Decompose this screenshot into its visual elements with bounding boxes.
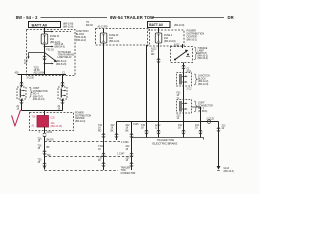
svg-text:(8W-10-16): (8W-10-16) bbox=[164, 41, 176, 43]
svg-text:8W-54 TRAILER TOW: 8W-54 TRAILER TOW bbox=[110, 15, 154, 20]
svg-text:C150: C150 bbox=[47, 132, 53, 134]
svg-text:(8W-12-9): (8W-12-9) bbox=[198, 84, 209, 86]
svg-text:A50: A50 bbox=[15, 72, 20, 75]
svg-text:LAMP: LAMP bbox=[198, 49, 205, 52]
svg-text:T BRAKE: T BRAKE bbox=[198, 47, 208, 50]
svg-text:CENTER: CENTER bbox=[187, 36, 197, 39]
svg-text:2 C349: 2 C349 bbox=[121, 142, 129, 144]
svg-text:1 C347: 1 C347 bbox=[117, 154, 125, 156]
svg-text:BK: BK bbox=[47, 147, 51, 149]
svg-text:A152 18: A152 18 bbox=[55, 43, 64, 46]
svg-text:10A: 10A bbox=[51, 122, 56, 125]
svg-text:(8W-12-8): (8W-12-8) bbox=[63, 27, 74, 29]
svg-text:TO TRAILER: TO TRAILER bbox=[58, 51, 72, 54]
svg-text:ELECTRIC BRAKE: ELECTRIC BRAKE bbox=[153, 141, 178, 145]
svg-text:CONNECTOR: CONNECTOR bbox=[121, 173, 136, 175]
svg-text:JOINT: JOINT bbox=[33, 88, 40, 90]
svg-text:A212: A212 bbox=[151, 48, 157, 51]
svg-text:F32 18: F32 18 bbox=[47, 50, 55, 52]
svg-text:8W-30: 8W-30 bbox=[86, 25, 93, 27]
svg-text:3 C150: 3 C150 bbox=[27, 77, 35, 79]
svg-text:RD: RD bbox=[151, 54, 155, 56]
svg-text:JUNCTION: JUNCTION bbox=[198, 76, 210, 78]
svg-text:BATT A0: BATT A0 bbox=[149, 23, 163, 27]
svg-text:(8W-10-2): (8W-10-2) bbox=[187, 40, 198, 42]
svg-text:20A: 20A bbox=[50, 38, 55, 41]
svg-text:DR: DR bbox=[228, 15, 234, 20]
svg-text:(8W-10-14): (8W-10-14) bbox=[33, 99, 45, 101]
svg-text:FUSE 32: FUSE 32 bbox=[109, 35, 119, 37]
svg-text:(8W-54-4): (8W-54-4) bbox=[56, 61, 67, 63]
svg-text:(8W-12-2): (8W-12-2) bbox=[198, 81, 209, 83]
svg-text:40A: 40A bbox=[164, 37, 169, 40]
svg-text:A212: A212 bbox=[155, 124, 161, 127]
svg-text:(IN PDC): (IN PDC) bbox=[198, 111, 208, 113]
svg-text:(8W-10-8): (8W-10-8) bbox=[174, 25, 185, 27]
svg-text:FUSE 4: FUSE 4 bbox=[164, 35, 173, 37]
svg-text:BK: BK bbox=[126, 130, 130, 132]
svg-text:LAMP RELAY: LAMP RELAY bbox=[58, 56, 73, 59]
svg-text:(8W-10-2): (8W-10-2) bbox=[75, 121, 86, 123]
svg-text:T152: T152 bbox=[34, 68, 40, 70]
svg-text:(8W-12-9): (8W-12-9) bbox=[109, 41, 120, 43]
svg-text:NO. 4: NO. 4 bbox=[33, 94, 40, 96]
svg-text:(8W-10-8): (8W-10-8) bbox=[76, 37, 87, 39]
svg-text:(8W-10-15): (8W-10-15) bbox=[51, 126, 63, 128]
svg-text:8W - 54 - 2: 8W - 54 - 2 bbox=[16, 15, 38, 20]
svg-text:POWER: POWER bbox=[75, 113, 84, 115]
svg-text:NO. 1: NO. 1 bbox=[198, 108, 205, 110]
svg-text:CENTER: CENTER bbox=[75, 118, 85, 120]
svg-text:CONNECTOR: CONNECTOR bbox=[33, 91, 48, 93]
svg-text:TOW: TOW bbox=[121, 170, 127, 172]
svg-text:RD: RD bbox=[98, 130, 102, 132]
svg-text:FUSE 31: FUSE 31 bbox=[50, 36, 60, 38]
svg-text:BK/OG: BK/OG bbox=[47, 139, 54, 141]
svg-text:JOINT: JOINT bbox=[198, 103, 205, 105]
svg-text:BK: BK bbox=[111, 130, 115, 132]
svg-text:G113: G113 bbox=[224, 168, 230, 170]
svg-text:C125: C125 bbox=[133, 124, 139, 126]
svg-text:TRAILER: TRAILER bbox=[121, 167, 131, 170]
svg-text:A52 18 BK: A52 18 BK bbox=[34, 72, 45, 75]
svg-text:(8W-12-2): (8W-12-2) bbox=[76, 40, 87, 42]
svg-text:4 C1: 4 C1 bbox=[187, 71, 193, 73]
svg-text:T152: T152 bbox=[98, 146, 104, 148]
svg-text:DISTRIBUTION: DISTRIBUTION bbox=[75, 115, 92, 117]
svg-text:BLOCK: BLOCK bbox=[76, 33, 85, 36]
svg-text:10A: 10A bbox=[109, 37, 114, 40]
svg-text:(8W-70-7): (8W-70-7) bbox=[33, 96, 44, 98]
svg-text:A0 12 RD: A0 12 RD bbox=[98, 25, 108, 28]
svg-text:(8W-54-5): (8W-54-5) bbox=[56, 64, 67, 66]
svg-text:BLOCK: BLOCK bbox=[198, 78, 206, 80]
svg-text:(8W-33-6): (8W-33-6) bbox=[198, 58, 209, 60]
svg-text:(8W-15-3): (8W-15-3) bbox=[224, 171, 235, 173]
svg-text:2 C2: 2 C2 bbox=[187, 89, 193, 91]
svg-text:(8W-10-8): (8W-10-8) bbox=[63, 24, 74, 26]
svg-text:C20: C20 bbox=[51, 118, 56, 120]
svg-text:BATT A0: BATT A0 bbox=[32, 23, 48, 27]
svg-text:(8W-54-3): (8W-54-3) bbox=[55, 47, 66, 49]
